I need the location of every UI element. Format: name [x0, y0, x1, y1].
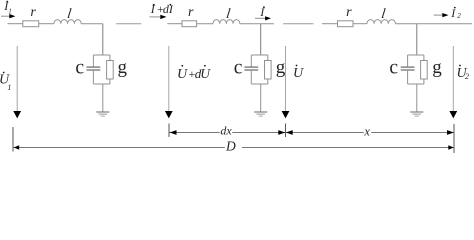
wire (section 1 input stub) [8, 23, 23, 25]
current arrow I+dI [150, 15, 167, 19]
label U+dU [177, 65, 211, 82]
label U2 [457, 65, 470, 82]
resistor r1 [23, 21, 39, 27]
wire (continuation dash 1) [116, 23, 141, 25]
voltage arrow U+dU [165, 46, 173, 118]
label I2 [450, 6, 461, 20]
voltage arrow U1 [13, 46, 21, 118]
label I1 [3, 0, 11, 15]
wire (cap 1 stem bottom) [92, 70, 94, 84]
wire [197, 23, 213, 25]
label I (mid) [259, 5, 265, 19]
shunt 2 bottom bar [251, 83, 267, 85]
wire (continuation dash 2) [283, 23, 313, 25]
wire (drop to shunt 2) [260, 24, 262, 55]
svg-text:1: 1 [8, 7, 12, 15]
wire (cap 1 stem top) [92, 55, 94, 67]
wire [240, 23, 274, 25]
wire (ground stem 1) [102, 84, 104, 112]
wire (box g2 stem top) [267, 55, 269, 61]
ground 3 [410, 112, 423, 116]
wire [39, 23, 54, 25]
dimension line dx [170, 130, 286, 135]
svg-text:x: x [363, 124, 370, 138]
conductance g3 [421, 61, 428, 80]
dimension line x [286, 130, 454, 135]
svg-text:U: U [177, 67, 188, 82]
svg-text:g: g [118, 57, 128, 78]
svg-text:1: 1 [7, 83, 11, 92]
wire (box g3 stem top) [423, 55, 425, 61]
svg-text:2: 2 [457, 12, 461, 20]
capacitor c2 [244, 67, 258, 70]
svg-text:g: g [432, 57, 442, 78]
resistor r3 [338, 21, 354, 27]
shunt 1 top bar [93, 54, 110, 56]
wire (box g2 stem bottom) [267, 79, 269, 84]
wire (section 3 input stub) [322, 23, 338, 25]
voltage arrow U (mid) [282, 46, 290, 118]
conductance g2 [265, 61, 272, 80]
voltage arrow U2 [449, 46, 457, 118]
svg-text:2: 2 [465, 72, 469, 81]
conductance g1 [107, 61, 114, 80]
svg-text:g: g [276, 57, 286, 78]
wire [353, 23, 367, 25]
wire (box g3 stem bottom) [423, 79, 425, 84]
dimension line D [14, 145, 454, 150]
shunt 2 top bar [251, 54, 267, 56]
svg-text:U: U [200, 66, 211, 81]
wire (box g1 stem top) [109, 55, 111, 61]
tick (dx left) [168, 124, 170, 138]
current arrow I1 [1, 14, 15, 18]
tick (D left, tall) [12, 127, 14, 152]
tick (dx right / x left) [285, 124, 287, 138]
wire (cap 3 stem bottom) [407, 70, 409, 84]
wire (box g1 stem bottom) [109, 79, 111, 84]
tick (x right, tall) [453, 124, 455, 153]
label U (mid) [293, 65, 304, 81]
shunt 3 bottom bar [408, 83, 424, 85]
wire (ground stem 3) [416, 84, 418, 112]
svg-text:I: I [150, 2, 156, 16]
svg-text:c: c [389, 57, 398, 78]
svg-text:r: r [188, 5, 194, 20]
current arrow I2 [434, 13, 449, 17]
wire (drop to shunt 3) [416, 24, 418, 55]
wire (ground stem 2) [260, 84, 262, 112]
wire (drop to shunt 1) [102, 24, 104, 55]
wire (cap 2 stem bottom) [250, 70, 252, 84]
wire (cap 3 stem top) [407, 55, 409, 67]
wire (cap 2 stem top) [250, 55, 252, 67]
resistor r2 [182, 21, 197, 27]
svg-text:dI: dI [163, 2, 174, 16]
inductor l3 [367, 20, 395, 24]
svg-text:dx: dx [220, 124, 232, 138]
svg-text:r: r [346, 5, 352, 20]
shunt 3 top bar [408, 54, 424, 56]
inductor l2 [213, 20, 240, 24]
wire (section 3 output) [395, 23, 472, 25]
svg-text:D: D [225, 138, 236, 153]
current arrow I (mid) [255, 16, 271, 20]
wire (section 2 input stub) [167, 23, 182, 25]
capacitor c1 [87, 67, 101, 70]
inductor l1 [54, 20, 81, 24]
label U1 [0, 72, 11, 92]
svg-text:U: U [293, 66, 304, 81]
capacitor c3 [401, 67, 415, 70]
ground 2 [254, 112, 267, 116]
svg-text:c: c [234, 57, 243, 78]
shunt 1 bottom bar [93, 83, 110, 85]
svg-text:c: c [75, 57, 84, 78]
ground 1 [96, 112, 109, 116]
label I+dI [150, 2, 174, 16]
svg-text:r: r [30, 5, 36, 20]
wire [81, 23, 103, 25]
